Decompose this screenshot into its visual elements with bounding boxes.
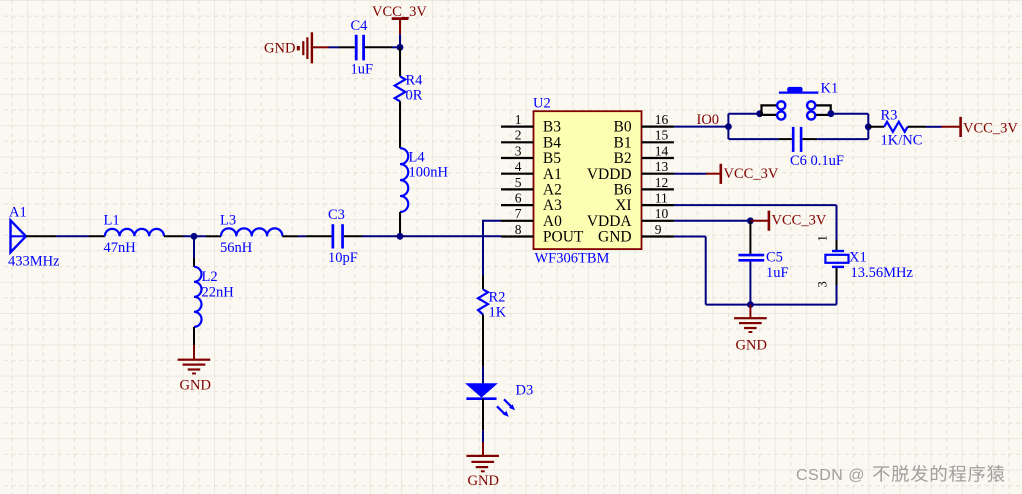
ground GND (below D3) — [466, 442, 499, 489]
svg-text:1: 1 — [816, 235, 830, 241]
pin 1 B3 — [501, 112, 561, 136]
svg-text:POUT: POUT — [543, 229, 584, 246]
svg-text:8: 8 — [515, 222, 522, 237]
svg-text:VDDA: VDDA — [587, 213, 633, 230]
power VCC_3V (top) — [372, 4, 427, 45]
junction K1 left — [756, 110, 763, 117]
svg-text:B5: B5 — [543, 150, 561, 167]
svg-text:47nH: 47nH — [104, 240, 137, 256]
wire top rail left — [728, 113, 759, 115]
svg-text:13: 13 — [655, 159, 669, 174]
svg-text:L1: L1 — [104, 213, 120, 229]
power VCC_3V (right of R3) — [942, 117, 1019, 137]
svg-text:433MHz: 433MHz — [8, 254, 60, 270]
ground GND (below L2) — [178, 345, 211, 394]
svg-text:IO0: IO0 — [697, 112, 720, 128]
pin 4 A1 — [501, 159, 562, 183]
pin 16 B0 — [614, 112, 674, 136]
svg-text:C6 0.1uF: C6 0.1uF — [790, 153, 844, 169]
svg-text:VDDD: VDDD — [587, 166, 632, 183]
junction K1 right — [828, 110, 835, 117]
wire U2 pin7 to R2 — [483, 220, 501, 290]
wire R4 to L4 — [399, 101, 401, 148]
junction L4/main line — [397, 233, 404, 240]
wire right branch vertical — [867, 114, 869, 139]
pin 15 B1 — [614, 128, 674, 152]
svg-text:C4: C4 — [351, 18, 369, 34]
wire bottom rail — [728, 138, 868, 140]
op-amp U2 WF306TBM body — [533, 96, 642, 267]
wire junction to L2 — [193, 236, 195, 266]
svg-text:B4: B4 — [543, 134, 561, 151]
wire D3 to ground — [482, 399, 484, 442]
capacitor C6 0.1uF — [790, 127, 844, 169]
svg-text:1K: 1K — [489, 305, 507, 321]
wire U2 pin13 to VCC — [674, 173, 706, 175]
svg-text:R4: R4 — [406, 73, 424, 89]
svg-text:22nH: 22nH — [202, 285, 235, 301]
svg-text:R2: R2 — [489, 290, 506, 306]
junction L1/L3/L2 — [191, 233, 198, 240]
svg-text:A3: A3 — [543, 197, 562, 214]
svg-text:CSDN @: CSDN @ — [796, 467, 865, 484]
svg-text:R3: R3 — [881, 108, 898, 124]
svg-text:GND: GND — [598, 229, 632, 246]
wire X1 to bottom rail — [836, 268, 838, 305]
svg-text:6: 6 — [515, 191, 522, 206]
svg-text:L3: L3 — [220, 213, 236, 229]
svg-text:WF306TBM: WF306TBM — [535, 251, 610, 267]
svg-text:C3: C3 — [328, 207, 345, 223]
svg-text:100nH: 100nH — [409, 165, 449, 181]
svg-text:0R: 0R — [406, 88, 423, 104]
svg-text:16: 16 — [655, 112, 669, 127]
pin 12 B6 — [614, 175, 674, 199]
pin 9 GND — [598, 222, 674, 246]
svg-text:A0: A0 — [543, 213, 562, 230]
svg-text:D3: D3 — [516, 383, 534, 399]
svg-text:10pF: 10pF — [328, 250, 358, 266]
resistor R4 0R — [395, 73, 423, 104]
svg-text:B0: B0 — [614, 119, 632, 136]
svg-text:C5: C5 — [766, 250, 783, 266]
diode D3 (LED) — [466, 383, 533, 417]
svg-text:56nH: 56nH — [220, 240, 253, 256]
svg-text:A1: A1 — [9, 205, 27, 221]
svg-text:14: 14 — [655, 143, 669, 158]
svg-text:11: 11 — [655, 191, 668, 206]
power VCC_3V (pin10) — [750, 211, 826, 231]
wire L2 to ground — [193, 327, 195, 345]
svg-text:1uF: 1uF — [351, 62, 374, 78]
power VCC_3V (pin13) — [706, 164, 779, 184]
svg-text:XI: XI — [615, 197, 631, 214]
wire C4 to junction — [365, 46, 401, 48]
ground GND (below C5) — [734, 305, 767, 354]
svg-text:7: 7 — [515, 206, 522, 221]
pin 8 POUT — [501, 222, 584, 246]
wire U2 pin16 to node IO0 — [674, 126, 729, 128]
svg-text:10: 10 — [655, 206, 669, 221]
svg-text:3: 3 — [816, 281, 830, 287]
svg-text:B1: B1 — [614, 134, 632, 151]
junction C5 bottom — [747, 301, 754, 308]
junction VCC/C4/R4 — [397, 44, 404, 51]
wire R2 to D3 — [482, 315, 484, 384]
resistor R3 1K/NC — [881, 108, 923, 149]
svg-text:L4: L4 — [409, 150, 426, 166]
crystal X1 13.56MHz — [816, 235, 914, 287]
wire U2 pin9 to bottom rail — [674, 237, 837, 305]
wire U2 pin10 to C5 node — [674, 220, 751, 222]
inductor L3 56nH — [220, 213, 282, 256]
pin 7 A0 — [501, 206, 562, 230]
svg-text:B6: B6 — [614, 182, 632, 199]
svg-text:VCC_3V: VCC_3V — [772, 213, 827, 229]
svg-text:13.56MHz: 13.56MHz — [851, 265, 914, 281]
svg-text:U2: U2 — [533, 96, 551, 112]
capacitor C5 1uF — [738, 221, 788, 305]
pin 3 B5 — [501, 143, 561, 167]
svg-text:15: 15 — [655, 128, 669, 143]
svg-text:9: 9 — [655, 222, 662, 237]
resistor R2 1K — [478, 289, 507, 320]
pin 2 B4 — [501, 128, 561, 152]
wire node to R3 — [868, 126, 884, 128]
inductor L2 22nH — [194, 267, 234, 327]
ground GND (power port, left of C4) — [264, 32, 329, 63]
wire L3 to C3 — [282, 235, 331, 237]
svg-text:GND: GND — [264, 41, 295, 57]
wire U2 pin11 to X1 — [674, 205, 837, 250]
svg-text:X1: X1 — [849, 250, 867, 266]
pin 5 A2 — [501, 175, 562, 199]
pin 11 XI — [615, 191, 674, 215]
wire L4 to main line — [399, 212, 401, 236]
svg-text:VCC_3V: VCC_3V — [963, 121, 1018, 137]
svg-text:1K/NC: 1K/NC — [881, 133, 923, 149]
wire top rail right — [831, 113, 868, 115]
junction R3 node — [865, 123, 872, 130]
capacitor C4 1uF — [351, 18, 374, 78]
inductor L1 47nH — [104, 213, 165, 256]
svg-text:2: 2 — [515, 128, 522, 143]
junction IO0 left — [725, 123, 732, 130]
svg-text:1: 1 — [515, 112, 522, 127]
wire GND to C4 — [329, 46, 355, 48]
wire left branch vertical — [727, 114, 729, 139]
svg-text:GND: GND — [468, 473, 499, 489]
svg-text:A1: A1 — [543, 166, 562, 183]
wire L1 to L3 — [164, 235, 221, 237]
svg-text:GND: GND — [180, 378, 211, 394]
svg-text:3: 3 — [515, 143, 522, 158]
svg-text:GND: GND — [736, 338, 767, 354]
switch K1 — [760, 81, 839, 120]
capacitor C3 10pF — [328, 207, 358, 266]
junction C5 top — [747, 217, 754, 224]
inductor L4 100nH — [400, 148, 449, 212]
svg-text:B2: B2 — [614, 150, 632, 167]
wire junction to R4 — [399, 47, 401, 76]
wire antenna to L1 — [26, 235, 105, 237]
svg-text:L2: L2 — [202, 269, 218, 285]
svg-text:12: 12 — [655, 175, 669, 190]
svg-text:B3: B3 — [543, 119, 561, 136]
svg-text:K1: K1 — [821, 81, 839, 97]
svg-text:5: 5 — [515, 175, 522, 190]
svg-text:VCC_3V: VCC_3V — [724, 166, 779, 182]
wire C3 to U2 pin 8 — [344, 235, 501, 237]
pin 10 VDDA — [587, 206, 674, 230]
antenna A1 433MHz — [8, 205, 60, 270]
svg-text:1uF: 1uF — [766, 265, 789, 281]
svg-text:4: 4 — [515, 159, 522, 174]
pin 6 A3 — [501, 191, 562, 215]
svg-text:A2: A2 — [543, 182, 562, 199]
wire R3 to VCC — [908, 126, 942, 128]
pin 13 VDDD — [587, 159, 674, 183]
pin 14 B2 — [614, 143, 674, 167]
